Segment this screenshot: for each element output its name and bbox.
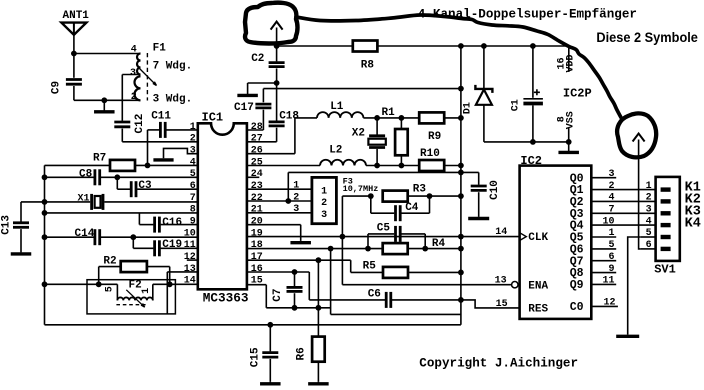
capacitor C12 [114,122,130,127]
junction R4/C5 left [365,246,371,252]
svg-text:28: 28 [251,122,263,133]
capacitor C18 [269,122,285,126]
wire VCC2 to SV1 pin 6 [639,140,641,249]
capacitor C4 [396,205,401,221]
svg-text:VDD: VDD [565,54,576,72]
svg-text:VSS: VSS [565,111,576,129]
wire ENA row [342,284,511,286]
wire VCC1 shaft [276,28,278,47]
junction pin18 vertical [328,246,334,252]
wire rail to IC1 pin 8 [45,212,198,214]
svg-text:R5: R5 [363,260,377,272]
wire IC1 pin 17 [247,259,351,261]
svg-text:9: 9 [608,264,614,275]
svg-text:3: 3 [646,205,652,216]
wire C12 to pin2 row [121,129,123,142]
F1 adjust arrow [138,67,157,86]
ground C10 [468,217,489,219]
wire IC1 pin 20 [247,224,301,226]
svg-text:RES: RES [528,303,548,315]
wire C5 right down [424,234,426,249]
junction R3/C4 right [427,193,433,199]
svg-text:SV1: SV1 [654,263,676,277]
svg-text:ANT1: ANT1 [63,10,90,22]
wire IC2 Q5 pin 1 [591,236,616,238]
junction R2 right [167,281,173,287]
wire tap to C12 [121,75,123,121]
wire C19 to IC1 pin 11 [161,247,198,249]
svg-text:1: 1 [190,122,196,133]
wire R10 to main vertical [444,165,461,167]
capacitor C16 [155,217,160,233]
svg-text:18: 18 [251,240,263,251]
junction main vertical/R3 row [458,193,464,199]
junction VCC rail/C2 [274,43,280,49]
filter F3 box [312,177,337,223]
wire IC1 pin 27 [247,141,277,143]
svg-text:3: 3 [190,146,196,157]
wire F1 tap pin 3 [122,74,140,76]
junction main vertical/R5 row [458,270,464,276]
wire X1 to IC1 pin 7 [104,201,197,203]
svg-text:3: 3 [608,169,614,180]
junction rail/C8 [42,174,48,180]
wire C18 to pin27 row [276,128,278,142]
svg-text:12: 12 [184,252,196,263]
capacitor C10 [471,186,487,190]
svg-text:MC3363: MC3363 [203,291,249,306]
junction C2/C18/gnd [274,80,280,86]
svg-text:3 Wdg.: 3 Wdg. [153,93,193,105]
wire IC2 Q0 pin 3 [591,177,616,179]
wire R7 to IC1 pin 4 [135,164,198,166]
svg-text:R8: R8 [361,59,375,71]
wire C17 to main vertical [263,88,461,90]
wire X2 to L2 row [376,149,378,166]
filter F2 box [87,280,175,314]
F2 coil [116,284,118,300]
ground R6 [308,382,329,384]
op-amp U2: IC2 counter body [520,166,592,319]
IC2P VSS pin [568,128,570,142]
svg-text:16: 16 [251,264,263,275]
svg-text:6: 6 [608,252,614,263]
wire IC1 pin 24 stub [247,176,259,178]
svg-text:4: 4 [646,216,652,227]
ground SV1 pin5 [616,334,639,336]
wire SV1 pin5 to ground [628,237,641,334]
svg-text:2: 2 [321,198,327,209]
resistor R8 [353,41,378,52]
svg-text:IC2: IC2 [520,154,542,168]
wire IC2 Q3 pin 7 [591,212,655,214]
svg-text:C9: C9 [51,81,63,94]
svg-text:IC2P: IC2P [563,86,592,100]
svg-text:R7: R7 [93,153,106,165]
wire row 308 [266,307,330,309]
wire node to C18 [276,83,278,121]
svg-text:C3: C3 [138,180,152,192]
capacitor C11 [160,122,165,138]
wire IC2 C0 pin 12 stub [591,305,618,307]
wire to C19 [132,237,134,248]
wire R3 right to main vertical [408,195,461,197]
svg-text:C18: C18 [279,111,299,123]
transformer F1 coil 7 Wdg section [137,54,140,75]
wire to R5 [351,271,383,273]
wire C2 to node [276,68,278,83]
wire R9 to main vertical [444,117,461,119]
wire to ground [248,82,277,84]
svg-text:3: 3 [293,204,299,215]
capacitor C15 [262,353,278,358]
junction gnd [101,97,107,103]
junction rail/C1 [530,43,536,49]
wire pin15 down [265,285,267,308]
IC2 ENA inversion bubble [512,282,518,288]
antenna ANT1 [61,23,86,35]
F2 adjust arrow [126,290,144,307]
capacitor C2 [269,63,285,67]
svg-text:Diese 2 Symbole: Diese 2 Symbole [596,30,698,45]
wire IC1 pin 28 [247,129,264,131]
wire IC1 pin 26 [247,153,295,155]
junction F3 pin2 branch [285,198,291,204]
resistor R7 [110,160,135,171]
transformer F1 coil 3 Wdg section [135,76,141,100]
wire C17 up [262,89,264,103]
F2 core dashed [116,304,146,306]
capacitor C17 [255,104,271,108]
wire R4 right to main vertical [408,248,461,250]
svg-text:10,7MHz: 10,7MHz [343,184,379,194]
junction X2 top [374,115,380,121]
wire IC1 pin 16 [247,271,309,273]
junction pin19/R3 net [340,234,346,240]
svg-text:1: 1 [321,186,327,197]
svg-text:1: 1 [646,181,652,192]
capacitor C7 [287,287,303,291]
wire pin14 row right segment [153,283,198,285]
resistor R9 [419,112,444,123]
svg-text:1: 1 [293,181,299,192]
svg-text:R9: R9 [428,131,441,143]
wire VCC rail right [377,45,568,47]
svg-text:20: 20 [251,216,263,227]
junction main vertical/C6 row [458,297,464,303]
wire C9 bottom to F1 pin 2 [74,99,141,101]
junction rail/main vertical [458,43,464,49]
wire pin26 up to L1 [294,118,296,154]
wire pin14 row left segment [45,283,118,285]
junction rail/D1 [481,43,487,49]
op-amp U1: IC1 MC3363 body DIP-28 [198,123,247,289]
resistor R6 [312,337,325,362]
svg-text:2: 2 [190,134,196,145]
ground pin3 [153,158,173,161]
svg-text:9: 9 [190,216,196,227]
svg-text:C2: C2 [251,53,264,65]
svg-text:L2: L2 [329,144,342,156]
wire to C3 [116,177,118,189]
svg-text:7: 7 [608,205,614,216]
wire SV1 pin 5 stub [641,236,656,238]
wire pin17 net to R6 [317,260,319,336]
capacitor C19 [155,240,160,256]
svg-text:R10: R10 [420,148,440,160]
resistor R3 [383,191,408,202]
ground C13 [11,252,32,254]
wire IC2 Q8 pin 9 [591,272,616,274]
wire to F1 pin 4 [74,53,141,55]
svg-text:2: 2 [131,92,137,103]
diode D1 zener [483,46,485,89]
wire VCC to C2 [276,46,278,61]
ground [94,100,115,112]
junction X2 bottom [374,163,380,169]
wire C14 to IC1 pin 10 [101,236,198,238]
freehand circle around VCC2 [617,113,656,157]
svg-text:C19: C19 [162,239,182,251]
wire IC1 pin 19 to IC2 CLK [247,236,520,238]
wire to C6 [309,299,385,301]
svg-text:4: 4 [608,193,614,204]
junction R4/C5 right [422,246,428,252]
resistor R5 [383,267,408,278]
capacitor C8 [95,169,100,185]
wire pin8 net to C16 [138,213,140,225]
wire rail to C1 [532,46,534,98]
supply arrow VCC1 [271,22,283,30]
wire rail to C8 [45,176,94,178]
F1 core dashed line [146,53,148,101]
svg-text:C17: C17 [234,102,254,114]
svg-text:25: 25 [251,157,263,168]
capacitor C5 [396,226,401,242]
resistor R10 [419,160,444,171]
svg-text:C5: C5 [377,222,391,234]
wire L2 to R10 [366,165,419,167]
svg-text:C7: C7 [272,288,284,301]
wire antenna to node [73,35,75,54]
ground pin20 [290,241,311,243]
freehand circle around VCC1 [245,3,298,44]
junction rail/C15 [267,322,273,328]
svg-text:3: 3 [130,68,136,79]
svg-text:11: 11 [184,240,196,251]
junction C8/C3 [114,174,120,180]
svg-text:2: 2 [646,193,652,204]
svg-text:C15: C15 [249,347,261,367]
wire R5 to main vertical [408,271,461,273]
wire C16 to IC1 pin 9 [161,224,198,226]
wire IC1 pin 15 [247,284,266,286]
wire IC1 pin 13 [167,271,198,273]
junction C1 bottom [530,139,536,145]
junction main vertical y172 [458,170,464,176]
wire R3 left net down to ENA [341,196,343,285]
svg-text:27: 27 [251,134,263,145]
svg-text:4-Kanal-Doppelsuper-Empfänger: 4-Kanal-Doppelsuper-Empfänger [418,7,637,21]
wire pin28 to C17 [262,110,264,130]
svg-text:2: 2 [608,181,614,192]
SV1 pin pads [661,187,671,191]
junction R1 top [399,115,405,121]
junction main vertical y88 [458,86,464,92]
wire SV1 pin 6 stub [641,248,656,250]
svg-text:14: 14 [495,227,507,238]
svg-text:5: 5 [608,240,614,251]
wire IC2 Q9 pin 11 [591,283,616,285]
svg-text:K4: K4 [685,217,701,232]
svg-text:4: 4 [190,157,196,168]
wire R3 left node [342,195,370,197]
wire IC2 RES to main vertical [461,300,520,308]
capacitor C6 [386,292,391,308]
svg-text:C11: C11 [151,111,171,123]
svg-text:L1: L1 [330,101,344,113]
junction pin17/R6 [316,257,322,263]
wire IC1 pin 18 to R4 [247,248,383,250]
wire pin16 down [308,272,310,300]
svg-text:F1: F1 [153,42,167,54]
crystal X2 [368,136,385,148]
wire IC1 pin 21 to F3 pin 3 [247,212,312,214]
junction VSS [566,139,572,145]
wire IC2 Q7 pin 6 [591,260,616,262]
junction R7/C11 [145,163,151,169]
svg-text:22: 22 [251,193,263,204]
wire IC2 Q2 pin 4 [591,200,655,202]
wire C11 to R7 net [147,130,149,166]
svg-text:X2: X2 [352,127,365,139]
wire R1 to L2 row [400,155,402,165]
ground C2 [237,83,258,95]
wire to L1 [295,117,317,119]
svg-text:19: 19 [251,228,263,239]
wire to X2 [376,118,378,135]
svg-text:C14: C14 [75,228,95,240]
svg-text:C12: C12 [134,114,146,134]
svg-text:6: 6 [190,181,196,192]
junction main vertical/R4 row [458,246,464,252]
wire rail to X1 [45,201,91,203]
crystal X1 [92,194,103,210]
junction R3/C4 left [368,193,374,199]
svg-text:F2: F2 [129,279,142,291]
junction C14/C19 [130,234,136,240]
junction pin16/C7 [292,269,298,275]
svg-text:7 Wdg.: 7 Wdg. [153,60,193,72]
svg-text:C1: C1 [511,99,522,111]
resistor R2 [98,267,100,285]
svg-text:R1: R1 [382,107,396,119]
svg-text:X1: X1 [78,194,90,205]
wire D1 to VSS row [483,105,485,142]
svg-text:5: 5 [105,286,116,292]
wire C4 right up [429,196,431,213]
wire C7 down [294,293,296,308]
IC2P VDD pin [568,46,570,72]
wire C11 left [148,129,160,131]
svg-text:23: 23 [251,181,263,192]
svg-text:CLK: CLK [528,232,548,244]
wire pin13 down [166,272,168,314]
wire main vertical net [460,46,462,325]
svg-text:10: 10 [602,216,614,227]
wire IC1 pin 25 to L2 [247,165,320,167]
svg-text:C0: C0 [570,301,584,314]
wire bottom rail [45,324,461,326]
wire to R1 [400,118,402,129]
svg-text:C8: C8 [79,169,93,181]
svg-text:D1: D1 [463,102,474,114]
wire C4 left down [370,196,372,213]
wire IC2 Q6 pin 5 [591,248,616,250]
resistor R1 [395,129,408,155]
wire C6 to main vertical [392,299,461,301]
wire IC1 pin 3 to ground [164,148,198,158]
junction rail/pin14 row [42,281,48,287]
wire to IC1 pin 2 [122,141,198,143]
svg-text:1: 1 [608,228,614,239]
wire rail to R7 [45,164,111,166]
svg-text:13: 13 [184,264,196,275]
wire C11 to IC1 pin 1 [166,129,197,131]
junction main vertical/CLK row [458,234,464,240]
svg-text:R3: R3 [413,184,427,196]
junction R2 left [96,281,102,287]
wire left rail vertical [44,165,46,324]
junction main vertical/R9 [458,115,464,121]
inductor L1 [317,112,363,118]
junction rail/X1 [42,199,48,205]
svg-text:3: 3 [321,210,327,221]
wire C5 left up [367,234,369,249]
svg-text:C16: C16 [162,217,182,229]
wire IC2 Q1 pin 2 [591,189,655,191]
svg-text:4: 4 [131,44,137,55]
junction antenna/C9/F1 [71,51,77,57]
capacitor C3 [131,181,136,197]
svg-text:1: 1 [141,288,152,294]
svg-text:Q9: Q9 [570,279,584,292]
svg-text:26: 26 [251,146,263,157]
wire F3 pin2 net up [287,172,289,201]
wire VCC rail left [277,45,353,47]
wire IC1 pin 12 stub [187,259,198,261]
wire pin16 to C7 [294,272,296,286]
svg-text:17: 17 [251,252,263,263]
wire IC2 Q4 pin 10 [591,224,655,226]
supply arrow VCC2 [633,134,645,142]
IC2 CLK input symbol [520,233,527,241]
capacitor C13 [13,223,29,228]
svg-text:C6: C6 [368,288,381,300]
capacitor C14 [95,229,100,245]
svg-text:21: 21 [251,205,263,216]
ground C15 [260,382,281,384]
junction C7 bottom [292,305,298,311]
wire to C10 [461,171,479,173]
svg-text:C13: C13 [0,215,12,235]
svg-text:2: 2 [293,192,299,203]
junction row308/R6 [316,305,322,311]
svg-text:Copyright J.Aichinger: Copyright J.Aichinger [419,357,578,371]
wire row 314 to main vertical [331,313,461,315]
inductor L2 [320,160,366,166]
svg-text:R6: R6 [296,347,308,360]
